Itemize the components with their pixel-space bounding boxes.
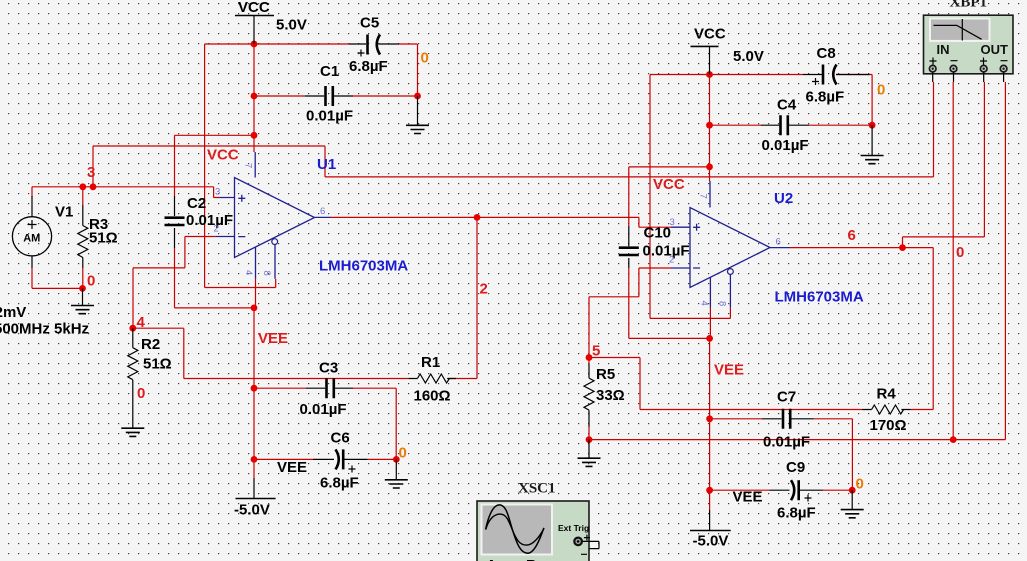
ground at C5/C1	[406, 96, 429, 134]
svg-text:7: 7	[243, 163, 254, 168]
svg-text:0.01µF: 0.01µF	[762, 137, 809, 154]
svg-text:6.8µF: 6.8µF	[777, 505, 816, 522]
svg-text:OUT: OUT	[981, 42, 1009, 57]
wire node 3 net	[32, 187, 220, 198]
svg-text:V1: V1	[55, 204, 73, 221]
resistor R4 170 ohm	[862, 386, 911, 435]
svg-text:IN: IN	[937, 42, 950, 57]
svg-text:U1: U1	[317, 156, 336, 173]
resistor R1 160 ohm	[409, 354, 456, 405]
wire ground reference net y=439.6	[589, 82, 1005, 440]
wire node 5 feedback to R4	[589, 358, 862, 410]
ground at C4	[861, 125, 884, 164]
wire U1 pin4 to VEE junction	[255, 279, 257, 308]
instrument XSC1 oscilloscope	[477, 481, 599, 561]
wire C8 right corner	[870, 75, 872, 126]
capacitor C2 0.01uF	[165, 195, 234, 248]
svg-text:6: 6	[848, 227, 856, 244]
svg-text:0: 0	[87, 273, 95, 290]
svg-text:XBP1: XBP1	[950, 0, 988, 11]
svg-text:51Ω: 51Ω	[143, 356, 172, 373]
ground at R5	[578, 440, 601, 467]
capacitor C7 0.01uF	[762, 389, 814, 451]
wire VCC2 vertical x=709.5	[709, 75, 711, 182]
svg-text:0.01µF: 0.01µF	[306, 108, 353, 125]
capacitor C1 0.01uF	[305, 63, 353, 125]
svg-text:C4: C4	[777, 97, 797, 114]
wire R4 right to U2 output	[911, 248, 934, 410]
svg-text:2mV: 2mV	[0, 304, 26, 321]
wire VCC2 rail top y=74.5	[650, 74, 870, 76]
wire C2 bottom to VEE junction	[175, 248, 255, 308]
ground at V1/R3	[71, 288, 94, 313]
wire U2 output line y=247.6	[790, 247, 933, 249]
svg-text:C3: C3	[319, 360, 338, 377]
junction VCC1 top	[251, 41, 258, 48]
ground at C9	[841, 490, 864, 518]
source V1 AM	[0, 204, 89, 338]
instrument XBP1 bode plotter	[924, 0, 1014, 82]
junction C6 right	[393, 456, 400, 463]
junction C4 right	[869, 122, 876, 129]
wire C4 line y=125.2	[710, 124, 873, 126]
capacitor C10 0.01uF	[619, 225, 690, 269]
wire C3 line y=388.2	[254, 388, 396, 459]
capacitor C4 0.01uF	[761, 97, 809, 155]
wire R5 leads	[588, 358, 590, 440]
svg-text:C8: C8	[817, 45, 836, 62]
junction C1 left	[251, 93, 258, 100]
svg-text:6.8µF: 6.8µF	[349, 58, 388, 75]
svg-text:C2: C2	[187, 195, 206, 212]
resistor R3 51 ohm	[78, 205, 118, 268]
wire VCC1 vertical x=254	[253, 44, 255, 152]
svg-text:6.8µF: 6.8µF	[320, 475, 359, 492]
capacitor C8 6.8uF polarized	[803, 45, 870, 106]
svg-text:R2: R2	[141, 336, 160, 353]
svg-text:VCC: VCC	[653, 176, 685, 193]
junction node 4	[129, 325, 136, 332]
svg-text:C10: C10	[644, 225, 672, 242]
svg-text:160Ω: 160Ω	[414, 388, 451, 405]
svg-text:5.0V: 5.0V	[276, 17, 307, 34]
svg-text:0.01µF: 0.01µF	[186, 212, 233, 229]
junction node 2	[474, 214, 481, 221]
wire C6 line y=459.4	[254, 458, 396, 460]
capacitor C3 0.01uF	[300, 360, 354, 419]
wire C7 line y=418.8	[710, 419, 853, 490]
wire U2 pin8 disable to VCC	[650, 75, 730, 319]
wire VEE1 vertical x=254	[253, 308, 255, 478]
svg-text:C1: C1	[320, 63, 339, 80]
ground at C6	[385, 459, 408, 488]
junction node 0 V1	[79, 285, 86, 292]
junction C9 right	[849, 487, 856, 494]
svg-text:2: 2	[214, 224, 219, 235]
svg-text:U2: U2	[774, 190, 793, 207]
wire V1 bottom lead	[31, 256, 33, 268]
svg-text:2: 2	[480, 281, 488, 298]
junction node 5	[586, 354, 593, 361]
junction C3 left	[251, 385, 258, 392]
svg-text:0: 0	[399, 445, 407, 462]
svg-text:6.8µF: 6.8µF	[806, 89, 845, 106]
svg-text:5: 5	[592, 343, 600, 360]
junction node 3 riser	[90, 183, 97, 190]
junction VCC2 pin7 branch	[706, 164, 713, 171]
svg-text:R1: R1	[421, 354, 440, 371]
svg-text:5.0V: 5.0V	[733, 48, 764, 65]
junction R5 bottom node 0	[586, 436, 593, 443]
capacitor C9 6.8uF polarized	[733, 459, 824, 522]
svg-text:LMH6703MA: LMH6703MA	[775, 289, 864, 306]
svg-text:Ext Trig: Ext Trig	[558, 523, 589, 533]
svg-text:4: 4	[699, 301, 710, 306]
svg-text:-5.0V: -5.0V	[693, 533, 729, 550]
svg-text:8: 8	[261, 271, 272, 276]
wire C9 line y=490.2	[710, 489, 853, 491]
op-amp U2 LMH6703MA	[669, 181, 864, 308]
wire VCC1 rail top y=44	[205, 44, 418, 96]
op-amp U1 LMH6703MA	[214, 152, 409, 279]
svg-text:0: 0	[856, 476, 864, 493]
svg-text:XSC1: XSC1	[518, 481, 556, 497]
svg-text:VCC: VCC	[694, 26, 726, 43]
junction C6 left	[251, 456, 258, 463]
svg-text:0: 0	[137, 385, 145, 402]
svg-text:A: A	[486, 557, 497, 561]
wire node 3 to long signal line	[93, 82, 934, 187]
ground at R2	[121, 380, 144, 437]
wire inverting input U2 to node 5	[589, 268, 671, 358]
svg-text:3: 3	[87, 164, 95, 181]
wire C10 bottom to VEE junction	[629, 268, 710, 338]
svg-text:VCC: VCC	[238, 0, 270, 16]
junction VCC1 pin7 branch	[251, 132, 258, 139]
svg-text:3: 3	[215, 187, 220, 198]
wire R1 right to node 2	[447, 217, 477, 378]
svg-text:VEE: VEE	[277, 459, 307, 476]
svg-text:6: 6	[776, 237, 781, 248]
svg-text:8: 8	[717, 301, 728, 306]
svg-text:C7: C7	[777, 389, 796, 406]
wire R3 leads	[82, 187, 84, 289]
wire VCC to C10 branch y=166.9	[629, 167, 710, 226]
svg-text:33Ω: 33Ω	[596, 387, 625, 404]
junction VEE2 top	[706, 335, 713, 342]
wire VEE2 vertical x=709.6	[709, 338, 711, 510]
svg-text:R5: R5	[596, 366, 615, 383]
svg-text:51Ω: 51Ω	[89, 230, 118, 247]
wire node 4 feedback to R1	[133, 328, 409, 378]
junction XBP1 IN- tap	[950, 436, 957, 443]
junction C4 left	[706, 122, 713, 129]
svg-text:B: B	[526, 557, 537, 561]
capacitor C5 6.8uF polarized	[349, 15, 399, 76]
svg-text:4: 4	[137, 314, 146, 331]
svg-text:0: 0	[421, 50, 429, 67]
svg-text:C5: C5	[360, 15, 379, 32]
svg-text:3: 3	[670, 217, 675, 228]
svg-text:AM: AM	[23, 233, 40, 245]
wire U2 pin4 to VEE junction	[709, 308, 711, 339]
junction VEE1 top	[251, 305, 258, 312]
svg-text:VCC: VCC	[207, 147, 239, 164]
wire V1 bottom y=288.4	[32, 268, 83, 288]
svg-text:0.01µF: 0.01µF	[763, 434, 810, 451]
svg-text:500MHz 5kHz: 500MHz 5kHz	[0, 321, 89, 338]
svg-text:VEE: VEE	[733, 489, 763, 506]
svg-text:7: 7	[698, 194, 709, 199]
resistor R2 51 ohm	[128, 328, 172, 379]
wire V1 top lead	[31, 196, 33, 217]
svg-text:VEE: VEE	[714, 362, 744, 379]
svg-text:0.01µF: 0.01µF	[643, 243, 690, 260]
svg-text:6: 6	[320, 206, 325, 217]
power VCC supply stage 2	[691, 26, 764, 75]
wire U2 output to XBP1 OUT+	[903, 82, 985, 248]
junction VCC2 top	[706, 71, 713, 78]
svg-text:VEE: VEE	[258, 330, 288, 347]
svg-text:LMH6703MA: LMH6703MA	[319, 258, 408, 275]
capacitor C6 6.8uF polarized	[277, 430, 368, 492]
junction C1 right	[414, 93, 421, 100]
power VCC supply stage 1	[235, 0, 307, 44]
wire C1 line y=96	[254, 95, 418, 97]
junction C7 left	[706, 415, 713, 422]
svg-text:0.01µF: 0.01µF	[300, 401, 347, 418]
wire U1 output line y=217.4	[331, 217, 671, 227]
svg-text:C9: C9	[786, 459, 805, 476]
svg-text:0: 0	[877, 82, 885, 99]
power -5.0V supply stage 1	[234, 478, 276, 519]
power -5.0V supply stage 2	[690, 510, 731, 550]
wire inverting input U1 to node 4	[133, 237, 215, 329]
wire U1 pin8 disable to VCC	[205, 44, 276, 288]
svg-text:C6: C6	[331, 430, 350, 447]
svg-text:-5.0V: -5.0V	[234, 502, 270, 519]
wire VCC to C2 branch y=135.3	[175, 135, 255, 196]
svg-text:170Ω: 170Ω	[870, 417, 907, 434]
svg-text:R4: R4	[877, 386, 897, 403]
resistor R5 33 ohm	[584, 364, 625, 427]
svg-text:0: 0	[956, 244, 964, 261]
svg-text:2: 2	[669, 255, 674, 266]
junction node 3 at R3 top	[79, 183, 86, 190]
junction C9 left	[706, 487, 713, 494]
junction U2 output tap	[899, 244, 906, 251]
svg-text:4: 4	[243, 270, 254, 275]
